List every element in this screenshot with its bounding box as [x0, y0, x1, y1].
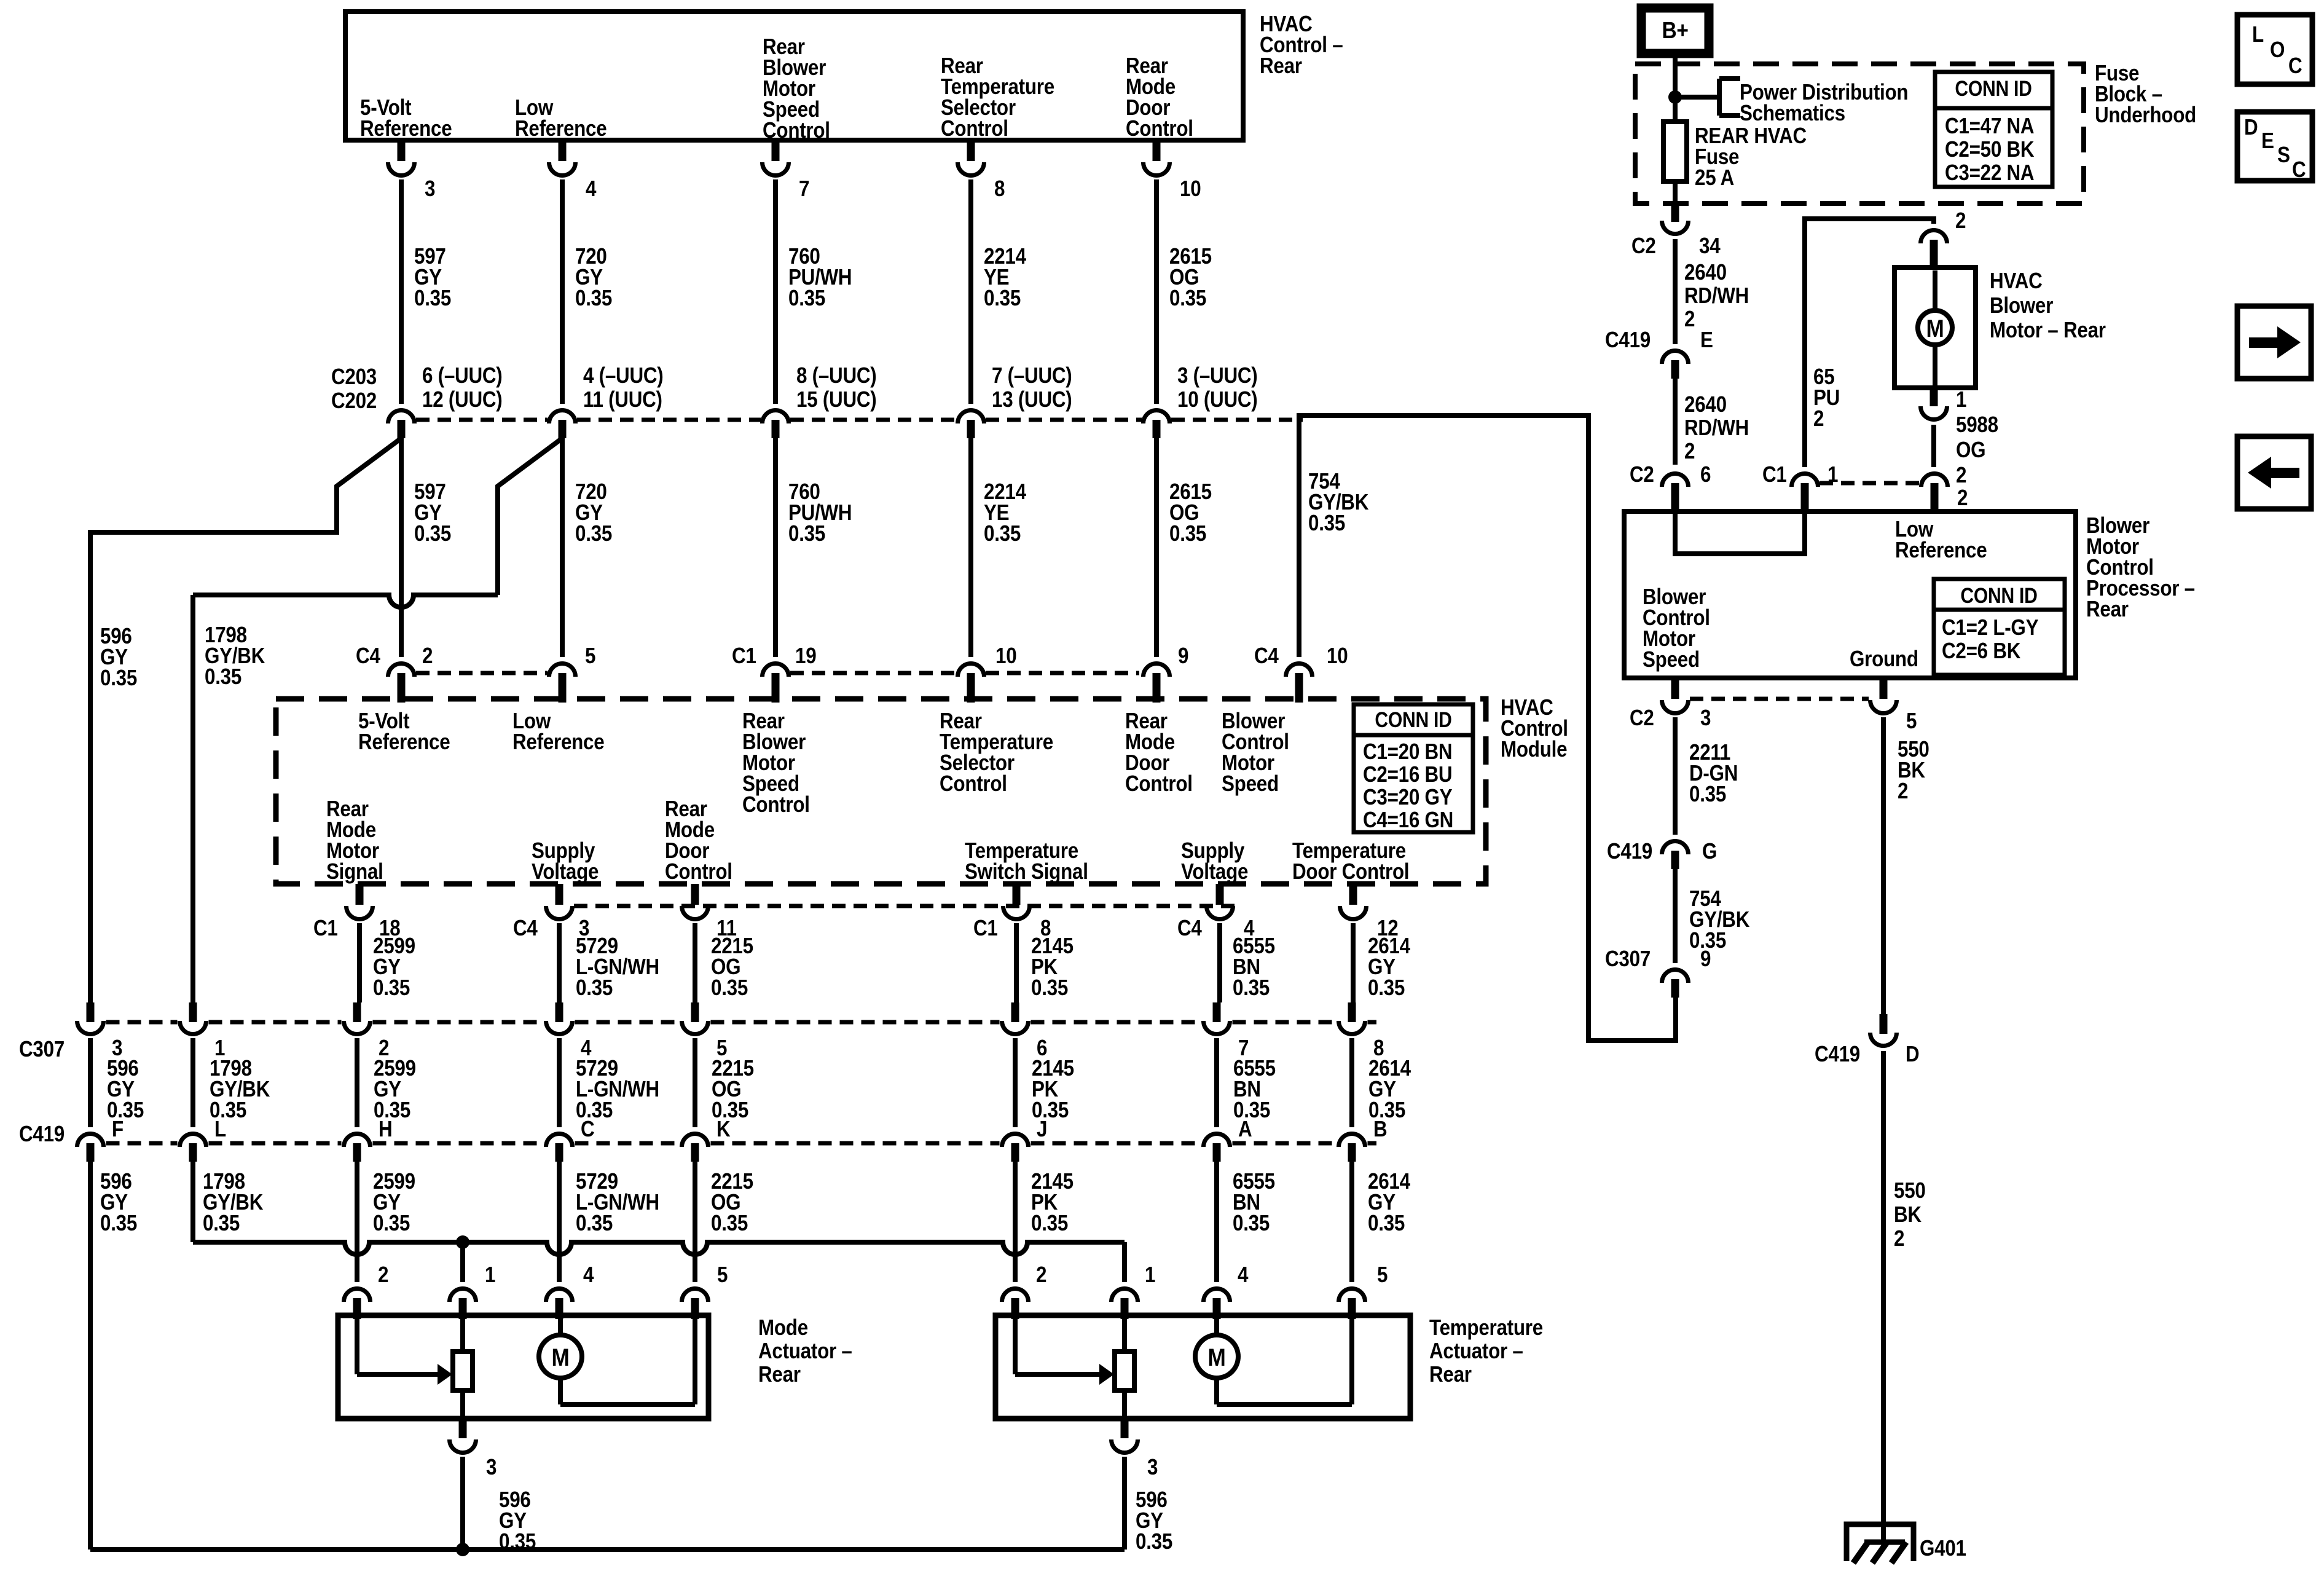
svg-text:RD/WH: RD/WH: [1684, 283, 1749, 309]
svg-text:Rear: Rear: [758, 1362, 801, 1387]
svg-text:0.35: 0.35: [1233, 975, 1270, 1001]
svg-text:0.35: 0.35: [373, 975, 410, 1001]
svg-text:E: E: [2261, 128, 2274, 154]
svg-text:CONN ID: CONN ID: [1375, 707, 1451, 732]
svg-text:G: G: [1702, 839, 1717, 864]
svg-text:Control: Control: [1125, 771, 1193, 797]
svg-text:C419: C419: [19, 1122, 65, 1147]
svg-text:8: 8: [994, 176, 1005, 202]
svg-text:3: 3: [425, 176, 435, 202]
svg-text:Voltage: Voltage: [532, 859, 599, 884]
svg-text:550: 550: [1894, 1178, 1926, 1203]
svg-text:H: H: [379, 1117, 392, 1142]
svg-text:O: O: [2270, 37, 2285, 63]
svg-text:0.35: 0.35: [576, 1211, 613, 1236]
svg-text:CONN ID: CONN ID: [1955, 76, 2032, 101]
svg-text:Signal: Signal: [326, 859, 383, 884]
svg-text:Switch Signal: Switch Signal: [965, 859, 1088, 884]
svg-text:OG: OG: [1956, 438, 1985, 463]
svg-text:Control: Control: [665, 859, 732, 884]
svg-text:F: F: [112, 1117, 124, 1142]
svg-text:0.35: 0.35: [1169, 521, 1206, 546]
svg-text:0.35: 0.35: [1169, 286, 1206, 311]
svg-text:C4: C4: [1254, 644, 1279, 669]
svg-text:8 (–UUC): 8 (–UUC): [796, 363, 876, 388]
svg-text:2640: 2640: [1684, 392, 1727, 417]
svg-text:C4: C4: [1177, 916, 1202, 941]
svg-text:BK: BK: [1894, 1202, 1922, 1227]
svg-text:M: M: [1207, 1344, 1225, 1371]
svg-text:C: C: [2292, 157, 2306, 183]
svg-text:C419: C419: [1607, 839, 1652, 864]
svg-text:2: 2: [1684, 307, 1695, 332]
svg-text:Control: Control: [742, 792, 810, 817]
svg-text:A: A: [1238, 1117, 1252, 1142]
svg-text:Mode: Mode: [758, 1315, 808, 1341]
svg-text:J: J: [1037, 1117, 1047, 1142]
svg-text:3: 3: [1147, 1455, 1158, 1480]
svg-text:0.35: 0.35: [414, 521, 451, 546]
svg-text:C1=20 BN: C1=20 BN: [1363, 739, 1452, 765]
svg-text:2: 2: [1957, 486, 1968, 511]
svg-text:0.35: 0.35: [203, 1211, 240, 1236]
svg-text:C1=2 L-GY: C1=2 L-GY: [1942, 615, 2039, 640]
svg-text:19: 19: [795, 644, 816, 669]
svg-text:5: 5: [1906, 709, 1917, 734]
svg-text:Schematics: Schematics: [1740, 101, 1845, 126]
svg-text:2: 2: [1898, 779, 1908, 804]
svg-text:Reference: Reference: [515, 116, 607, 141]
svg-text:0.35: 0.35: [1031, 1211, 1068, 1236]
svg-text:D: D: [2244, 115, 2258, 140]
svg-text:5: 5: [1377, 1262, 1388, 1288]
svg-text:9: 9: [1178, 644, 1188, 669]
svg-text:Control: Control: [1126, 116, 1193, 141]
svg-text:CONN ID: CONN ID: [1960, 583, 2037, 608]
svg-text:2: 2: [1955, 208, 1966, 234]
svg-text:0.35: 0.35: [576, 975, 613, 1001]
svg-text:E: E: [1700, 328, 1713, 353]
svg-text:13 (UUC): 13 (UUC): [992, 387, 1072, 412]
svg-text:Control: Control: [941, 116, 1008, 141]
svg-text:C3=20 GY: C3=20 GY: [1363, 785, 1453, 810]
svg-text:0.35: 0.35: [414, 286, 451, 311]
svg-text:Reference: Reference: [512, 730, 604, 755]
svg-text:0.35: 0.35: [575, 286, 612, 311]
svg-text:C2=50 BK: C2=50 BK: [1945, 137, 2035, 162]
svg-text:K: K: [716, 1117, 731, 1142]
svg-text:Control: Control: [763, 118, 830, 143]
svg-text:B+: B+: [1662, 17, 1688, 43]
svg-text:C2: C2: [1630, 462, 1654, 487]
svg-text:0.35: 0.35: [1689, 782, 1726, 807]
svg-text:C4: C4: [356, 644, 380, 669]
svg-text:D: D: [1906, 1042, 1919, 1067]
svg-text:HVAC: HVAC: [1990, 269, 2043, 294]
svg-text:Door Control: Door Control: [1292, 859, 1409, 884]
svg-text:0.35: 0.35: [1368, 975, 1405, 1001]
svg-text:S: S: [2277, 143, 2290, 168]
svg-text:0.35: 0.35: [373, 1211, 410, 1236]
svg-text:RD/WH: RD/WH: [1684, 415, 1749, 441]
svg-text:C2=6 BK: C2=6 BK: [1942, 639, 2021, 664]
svg-text:Blower: Blower: [1990, 293, 2053, 318]
svg-text:2: 2: [1684, 439, 1695, 464]
svg-text:1: 1: [485, 1262, 495, 1288]
svg-text:3: 3: [1700, 706, 1711, 731]
svg-text:0.35: 0.35: [1233, 1211, 1270, 1236]
svg-text:0.35: 0.35: [575, 521, 612, 546]
svg-text:4 (–UUC): 4 (–UUC): [583, 363, 663, 388]
svg-text:34: 34: [1699, 234, 1721, 259]
svg-text:C3=22 NA: C3=22 NA: [1945, 160, 2034, 186]
svg-text:C419: C419: [1605, 328, 1651, 353]
svg-text:3 (–UUC): 3 (–UUC): [1177, 363, 1257, 388]
svg-text:L: L: [214, 1117, 226, 1142]
svg-text:11 (UUC): 11 (UUC): [583, 387, 662, 412]
svg-text:6: 6: [1700, 462, 1711, 487]
svg-text:10 (UUC): 10 (UUC): [1177, 387, 1257, 412]
svg-text:Rear: Rear: [2086, 597, 2129, 622]
svg-text:0.35: 0.35: [100, 666, 137, 691]
svg-text:15 (UUC): 15 (UUC): [796, 387, 876, 412]
svg-text:3: 3: [486, 1455, 497, 1480]
svg-text:0.35: 0.35: [100, 1211, 137, 1236]
svg-text:C202: C202: [331, 388, 377, 414]
svg-text:0.35: 0.35: [711, 1211, 748, 1236]
svg-text:4: 4: [583, 1262, 594, 1288]
svg-text:Control: Control: [940, 771, 1007, 797]
svg-text:Underhood: Underhood: [2095, 103, 2196, 128]
svg-text:C419: C419: [1815, 1042, 1860, 1067]
svg-text:2: 2: [1894, 1226, 1904, 1251]
svg-text:7 (–UUC): 7 (–UUC): [992, 363, 1072, 388]
svg-text:7: 7: [799, 176, 809, 202]
svg-text:M: M: [551, 1344, 569, 1371]
svg-text:C203: C203: [331, 364, 377, 390]
svg-text:Ground: Ground: [1850, 647, 1918, 672]
svg-text:10: 10: [1180, 176, 1201, 202]
svg-text:2: 2: [1956, 463, 1966, 488]
svg-text:Actuator –: Actuator –: [1429, 1339, 1523, 1364]
svg-text:0.35: 0.35: [788, 286, 825, 311]
svg-text:0.35: 0.35: [984, 286, 1021, 311]
svg-text:5: 5: [585, 644, 595, 669]
svg-text:Speed: Speed: [1222, 771, 1279, 797]
svg-text:9: 9: [1700, 947, 1711, 972]
svg-text:Reference: Reference: [358, 730, 450, 755]
svg-text:2: 2: [378, 1262, 388, 1288]
svg-text:Reference: Reference: [1895, 538, 1987, 563]
svg-text:4: 4: [1238, 1262, 1249, 1288]
svg-text:25 A: 25 A: [1695, 165, 1734, 191]
svg-text:C4: C4: [513, 916, 538, 941]
svg-text:Module: Module: [1501, 737, 1567, 762]
svg-text:0.35: 0.35: [984, 521, 1021, 546]
svg-text:5: 5: [717, 1262, 728, 1288]
svg-text:Speed: Speed: [1643, 647, 1700, 672]
svg-text:C2=16 BU: C2=16 BU: [1363, 762, 1452, 787]
svg-text:0.35: 0.35: [1031, 975, 1068, 1001]
svg-text:2: 2: [422, 644, 433, 669]
svg-text:1: 1: [1145, 1262, 1155, 1288]
svg-text:Actuator –: Actuator –: [758, 1339, 852, 1364]
svg-text:C: C: [2288, 53, 2302, 79]
svg-text:C1=47 NA: C1=47 NA: [1945, 114, 2034, 139]
svg-text:Rear: Rear: [1260, 53, 1302, 79]
svg-text:5988: 5988: [1956, 412, 1998, 438]
svg-text:C2: C2: [1631, 234, 1656, 259]
svg-text:C1: C1: [732, 644, 756, 669]
svg-text:B: B: [1373, 1117, 1387, 1142]
svg-text:C2: C2: [1630, 706, 1654, 731]
svg-text:0.35: 0.35: [205, 664, 241, 690]
svg-text:Rear: Rear: [1429, 1362, 1472, 1387]
svg-text:C307: C307: [1605, 947, 1651, 972]
svg-text:12 (UUC): 12 (UUC): [422, 387, 502, 412]
svg-text:Voltage: Voltage: [1181, 859, 1248, 884]
svg-text:4: 4: [586, 176, 597, 202]
svg-text:L: L: [2252, 22, 2264, 47]
svg-text:0.35: 0.35: [711, 975, 748, 1001]
svg-text:0.35: 0.35: [1308, 511, 1345, 536]
svg-text:2: 2: [1036, 1262, 1046, 1288]
svg-text:C4=16 GN: C4=16 GN: [1363, 808, 1453, 833]
svg-text:C: C: [581, 1117, 594, 1142]
svg-text:Temperature: Temperature: [1429, 1315, 1543, 1341]
svg-text:0.35: 0.35: [788, 521, 825, 546]
svg-text:C1: C1: [973, 916, 998, 941]
svg-text:C1: C1: [1762, 462, 1787, 487]
svg-text:M: M: [1926, 315, 1944, 342]
svg-text:6 (–UUC): 6 (–UUC): [422, 363, 502, 388]
svg-text:Motor – Rear: Motor – Rear: [1990, 318, 2106, 343]
svg-text:2: 2: [1813, 406, 1824, 431]
svg-text:10: 10: [1327, 644, 1348, 669]
svg-text:G401: G401: [1920, 1536, 1966, 1561]
svg-text:1: 1: [1956, 387, 1966, 412]
svg-text:2640: 2640: [1684, 260, 1727, 285]
svg-text:Reference: Reference: [360, 116, 452, 141]
svg-text:C1: C1: [313, 916, 338, 941]
svg-text:0.35: 0.35: [1136, 1529, 1172, 1554]
svg-text:10: 10: [995, 644, 1016, 669]
svg-text:C307: C307: [19, 1037, 65, 1062]
svg-text:0.35: 0.35: [1368, 1211, 1405, 1236]
